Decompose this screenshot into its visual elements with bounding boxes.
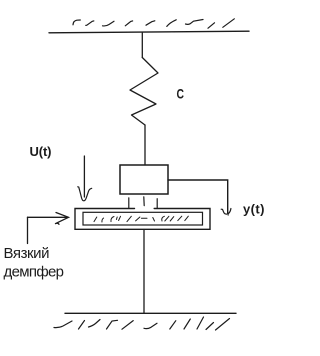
wire spring to mass	[144, 125, 146, 165]
ceiling hatching	[73, 19, 234, 28]
damper interior hatching	[94, 216, 188, 222]
arrowhead U(t)	[78, 187, 92, 201]
damper inner box	[83, 212, 203, 225]
arrowhead y(t)	[221, 209, 231, 216]
wire below damper arrow	[27, 217, 29, 243]
wire mass to y(t) arrow	[168, 180, 228, 213]
wire damper to ground	[143, 230, 145, 314]
ceiling line	[49, 31, 249, 33]
svg-text:демпфер: демпфер	[4, 264, 65, 281]
U(t) force arrow	[83, 156, 85, 197]
ground line	[65, 312, 236, 314]
svg-text:y(t): y(t)	[243, 202, 265, 217]
svg-text:U(t): U(t)	[30, 144, 52, 159]
tick centre below mass	[143, 197, 145, 206]
arrowhead damper arrow	[55, 213, 69, 225]
wire ceiling to spring	[141, 33, 143, 58]
tick right below mass	[156, 199, 158, 209]
damper outer box	[75, 209, 210, 230]
spring C	[130, 58, 158, 126]
ground hatching	[54, 317, 230, 330]
force arrow into damper	[28, 216, 68, 218]
tick left below mass	[128, 198, 130, 208]
svg-text:Вязкий: Вязкий	[4, 245, 50, 262]
svg-text:C: C	[177, 86, 185, 102]
mass block	[120, 165, 168, 194]
